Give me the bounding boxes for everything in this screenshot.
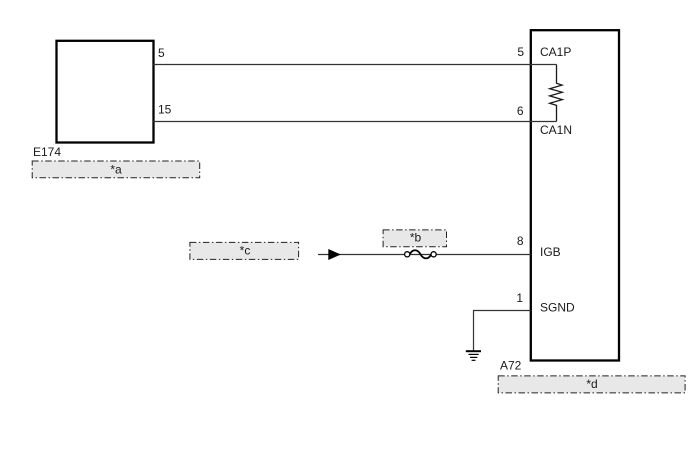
ground <box>466 351 481 360</box>
svg-text:8: 8 <box>517 234 524 248</box>
svg-text:5: 5 <box>517 45 524 59</box>
svg-text:CA1P: CA1P <box>540 45 571 59</box>
arrow (signal direction on IGB wire) <box>328 249 341 260</box>
ECU box A72 <box>531 30 619 360</box>
resistor (A72 internal, between CA1P and CA1N) <box>550 65 563 122</box>
label box *d <box>498 376 685 393</box>
label box *a <box>32 161 200 178</box>
svg-text:1: 1 <box>516 291 523 305</box>
svg-text:*a: *a <box>110 163 122 177</box>
svg-text:*c: *c <box>240 244 251 258</box>
svg-text:*d: *d <box>586 377 597 391</box>
label box *c <box>190 242 299 259</box>
svg-text:5: 5 <box>158 46 165 60</box>
svg-text:IGB: IGB <box>540 245 561 259</box>
connector E174 <box>57 41 154 143</box>
wire CA1N (E174 pin 15 to A72 pin 6) <box>153 121 557 123</box>
svg-text:*b: *b <box>410 231 422 245</box>
svg-text:E174: E174 <box>33 145 61 159</box>
noise filter (two terminals and wavy element) <box>405 250 437 258</box>
wire CA1P (E174 pin 5 to A72 pin 5) <box>153 64 557 66</box>
svg-text:SGND: SGND <box>540 301 575 315</box>
wire IGB <box>318 254 531 256</box>
svg-text:A72: A72 <box>500 359 522 373</box>
svg-text:15: 15 <box>158 103 172 117</box>
label box *b <box>383 230 446 247</box>
svg-text:CA1N: CA1N <box>540 123 572 137</box>
wire SGND (A72 pin 1 to ground) <box>474 311 531 351</box>
svg-text:6: 6 <box>517 104 524 118</box>
